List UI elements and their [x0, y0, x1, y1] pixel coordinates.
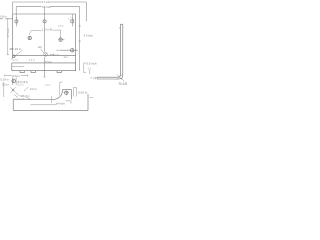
bottom view — [13, 90, 88, 111]
svg-text:Ø0.19 in: Ø0.19 in — [10, 47, 22, 51]
hole B centerline (long vertical) — [44, 7, 46, 78]
hole C centerline — [71, 14, 73, 26]
bottom view tab top — [62, 90, 71, 100]
right tick — [90, 97, 94, 99]
detail circle — [12, 79, 16, 83]
svg-text:0.2 in: 0.2 in — [2, 82, 9, 86]
svg-text:0.5 in: 0.5 in — [45, 60, 52, 64]
slot leader — [41, 49, 45, 53]
thickness dim marks — [90, 77, 96, 80]
svg-text:0.2 in tab: 0.2 in tab — [14, 97, 25, 101]
svg-text:0.2 in: 0.2 in — [30, 87, 37, 91]
front view — [12, 63, 76, 73]
hole B — [43, 20, 46, 23]
leader from hole D to text — [30, 31, 41, 35]
bend radius leader — [122, 79, 125, 82]
left vertical dimension line — [7, 19, 9, 55]
hole F — [71, 49, 74, 52]
plate top view outline — [13, 14, 76, 71]
svg-text:slot: slot — [38, 46, 42, 49]
left extension vertical — [3, 82, 5, 97]
wire: left hook of 3.5 dim — [15, 7, 17, 19]
extension verticals — [13, 77, 16, 86]
front view inner line — [12, 65, 24, 67]
svg-text:1.1 in: 1.1 in — [45, 84, 52, 87]
texts — [0, 0, 127, 105]
hole A centerline — [15, 17, 17, 27]
side view right — [97, 24, 123, 79]
dimension 3.5 in line — [16, 6, 79, 8]
hole H — [65, 91, 68, 94]
hole A — [15, 20, 18, 23]
svg-text:0.8 in: 0.8 in — [0, 15, 7, 19]
svg-text:0.2 in: 0.2 in — [17, 83, 24, 87]
svg-text:0.2 in: 0.2 in — [29, 59, 36, 62]
svg-text:4 inch: 4 inch — [57, 101, 65, 105]
corner leader diagonal — [14, 95, 18, 98]
bottom view outline — [13, 90, 88, 111]
detail annotation cluster — [4, 74, 29, 97]
leader from text to hole E — [53, 30, 61, 38]
dimension 3.7 inch line — [13, 1, 87, 3]
tab below 2 — [31, 71, 36, 73]
hole C — [71, 20, 74, 23]
hole D — [28, 36, 31, 39]
side view left tick — [119, 27, 121, 29]
svg-text:R=1/8: R=1/8 — [119, 82, 128, 86]
svg-text:0.2 in: 0.2 in — [12, 59, 19, 62]
tab below 1 — [20, 71, 25, 73]
svg-text:0.5 in: 0.5 in — [54, 55, 60, 57]
wire: right vertical dimension line 4.3 inch — [79, 7, 81, 71]
wire: left hook of 3.7 dim — [12, 2, 14, 14]
slot right dim — [50, 53, 54, 55]
svg-text:2.7 inch: 2.7 inch — [6, 28, 10, 38]
leader to O0.2 text — [16, 93, 20, 96]
svg-text:0.5 in: 0.5 in — [13, 74, 20, 78]
4 inch dim line — [31, 101, 72, 105]
dim 0.5 in segments — [5, 74, 28, 76]
svg-text:0.5 in: 0.5 in — [58, 25, 65, 28]
svg-text:0.1: 0.1 — [88, 66, 92, 70]
X cross detail — [10, 87, 16, 93]
svg-text:0.63 in: 0.63 in — [78, 91, 88, 95]
svg-text:1.2 in Ø: 1.2 in Ø — [42, 28, 53, 32]
front view outline — [12, 63, 76, 71]
left small dimension line — [0, 18, 13, 20]
faint vertical — [51, 96, 53, 103]
hole G small — [13, 55, 16, 58]
front view right bracket — [84, 63, 86, 73]
side view top cap — [120, 23, 122, 25]
slot circle with X — [44, 53, 48, 57]
leader to 0.2 text — [24, 87, 28, 91]
small bracket near bar — [88, 70, 90, 74]
svg-text:4.3 inch: 4.3 inch — [84, 33, 94, 37]
hole F centerline — [57, 49, 78, 51]
top edge leader diagonal — [26, 97, 31, 100]
bend X mark — [117, 74, 123, 79]
bottom tab bracket — [73, 88, 76, 97]
tab left extension — [60, 82, 63, 95]
tab below 3 — [57, 71, 62, 73]
side view bent profile outer — [97, 24, 123, 79]
svg-text:3.5 inch: 3.5 inch — [42, 5, 52, 9]
svg-text:0.5 inch: 0.5 inch — [86, 61, 97, 65]
wire: right hook of 3.7 dim — [86, 2, 88, 21]
svg-text:1 in: 1 in — [64, 56, 69, 59]
leader for hole G — [11, 50, 22, 59]
hole E — [59, 38, 62, 41]
side view bent profile inner — [97, 24, 120, 77]
svg-text:1.5 in: 1.5 in — [68, 17, 75, 20]
svg-text:0.19 in: 0.19 in — [0, 77, 9, 81]
side view left cap of bar — [96, 77, 98, 79]
svg-text:3.7 inch: 3.7 inch — [42, 0, 52, 4]
